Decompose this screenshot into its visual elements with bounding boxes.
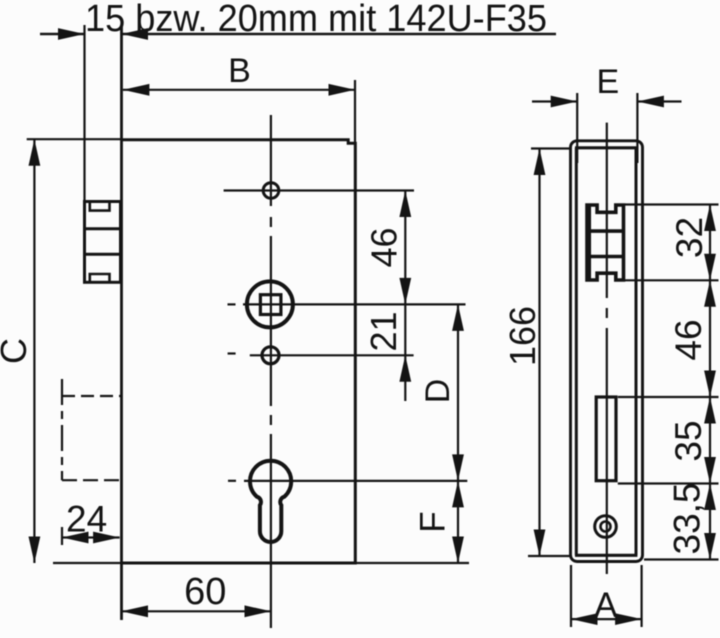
svg-text:24: 24 [66, 499, 107, 540]
svg-text:35: 35 [668, 420, 709, 461]
svg-text:21: 21 [363, 311, 404, 351]
svg-text:46: 46 [668, 319, 709, 360]
svg-text:33,5: 33,5 [667, 482, 708, 554]
svg-text:46: 46 [364, 227, 405, 267]
svg-text:15 bzw. 20mm mit 142U-F35: 15 bzw. 20mm mit 142U-F35 [85, 0, 547, 40]
svg-text:32: 32 [669, 217, 710, 258]
svg-text:C: C [0, 338, 34, 364]
svg-text:F: F [414, 511, 453, 532]
svg-text:60: 60 [184, 571, 226, 613]
svg-text:B: B [228, 52, 251, 90]
svg-text:E: E [596, 63, 619, 101]
svg-text:166: 166 [502, 306, 543, 366]
svg-text:D: D [419, 379, 457, 404]
svg-text:A: A [594, 586, 618, 625]
